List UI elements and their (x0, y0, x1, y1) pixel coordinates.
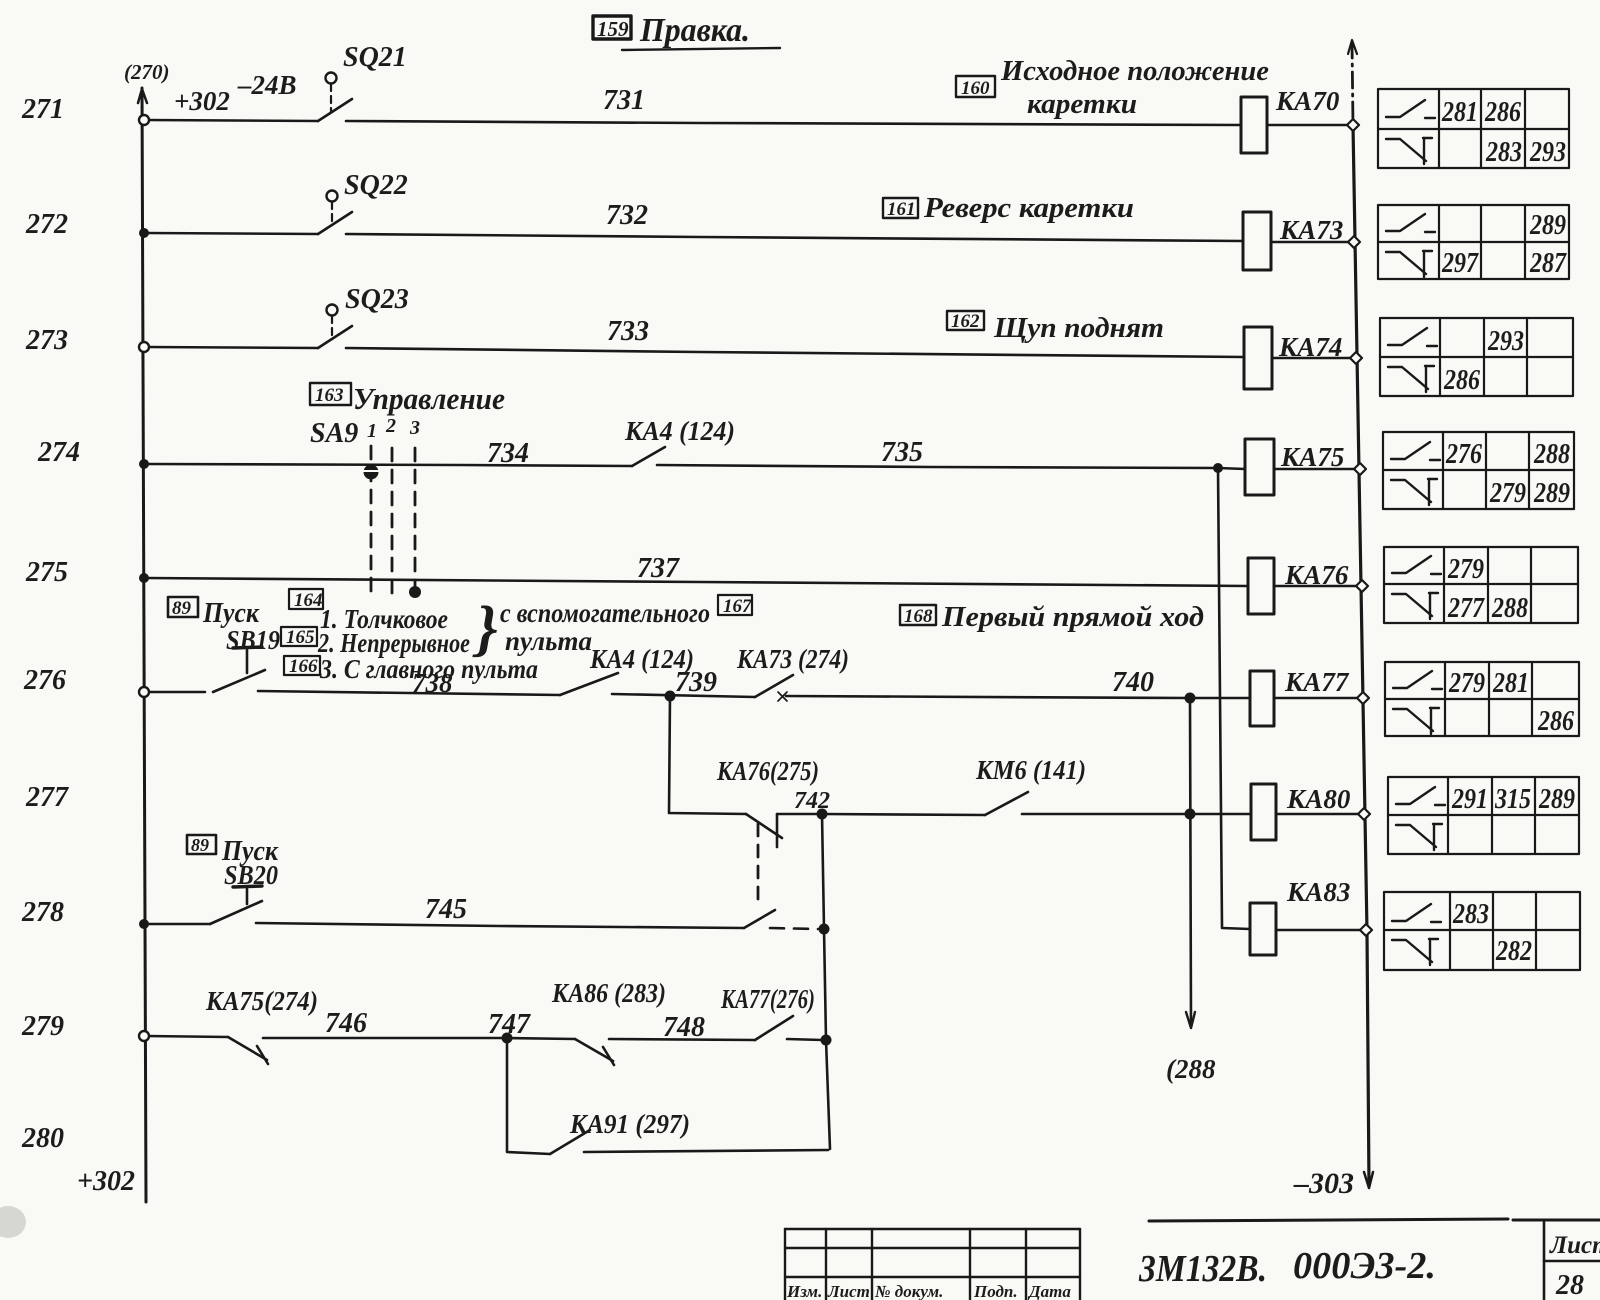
junction left bus rung 278 (139, 919, 149, 929)
relay coil KA75 (1245, 439, 1274, 495)
selector switch SA9 (371, 446, 415, 596)
label 163 Upravlenie (310, 383, 351, 405)
svg-text:+302: +302 (174, 86, 230, 116)
svg-text:165: 165 (286, 627, 315, 648)
svg-text:28: 28 (1555, 1270, 1584, 1300)
svg-text:271: 271 (21, 94, 64, 125)
svg-text:281: 281 (1441, 96, 1478, 128)
svg-text:Изм.: Изм. (786, 1282, 822, 1300)
svg-text:289: 289 (1533, 477, 1570, 509)
wire branch 739 to rung 277 (669, 696, 746, 814)
svg-text:КА76: КА76 (1284, 560, 1349, 590)
svg-text:КА80: КА80 (1286, 784, 1351, 814)
svg-text:SQ21: SQ21 (343, 42, 407, 73)
contact table KA75 (1383, 432, 1574, 509)
title block revision table (785, 1229, 1080, 1300)
svg-text:286: 286 (1537, 705, 1574, 737)
svg-text:293: 293 (1529, 136, 1566, 168)
svg-text:273: 273 (25, 325, 68, 356)
svg-text:SQ22: SQ22 (344, 170, 408, 201)
junction 747 (502, 1033, 513, 1044)
svg-text:89: 89 (172, 598, 192, 619)
junction rung 276 / branch 742 (665, 691, 676, 702)
svg-text:745: 745 (425, 894, 467, 925)
svg-text:288: 288 (1491, 592, 1528, 624)
push button SB19 (213, 647, 265, 692)
contact KA4 (124) rung 274 (632, 447, 665, 466)
junction rung 274 / branch to KA83 (1213, 463, 1223, 473)
limit switch SQ21 (318, 73, 352, 122)
contact KA77 (276) rung 279 (755, 1016, 793, 1040)
svg-text:89: 89 (191, 835, 209, 855)
contact KA4 (124) rung 276 (560, 673, 618, 695)
contact table KA74 (1380, 318, 1573, 396)
svg-text:160: 160 (961, 78, 990, 99)
svg-text:159: 159 (597, 17, 629, 41)
wire rung 276 (146, 691, 1363, 698)
svg-text:КА91 (297): КА91 (297) (569, 1109, 690, 1139)
svg-text:731: 731 (603, 85, 645, 116)
svg-text:291: 291 (1451, 783, 1488, 815)
svg-text:746: 746 (325, 1008, 367, 1039)
svg-text:747: 747 (488, 1009, 531, 1040)
svg-text:3: 3 (409, 417, 420, 439)
svg-text:276: 276 (1445, 438, 1482, 470)
junction right bus KA83 (1360, 924, 1372, 936)
svg-text:КА74: КА74 (1278, 332, 1342, 362)
svg-text:289: 289 (1529, 209, 1566, 241)
junction right bus rung 276 (1357, 692, 1369, 704)
svg-text:КА77(276): КА77(276) (720, 984, 815, 1014)
svg-text:166: 166 (289, 656, 318, 677)
svg-text:163: 163 (315, 385, 344, 406)
wire branch rung 274 to KA83 (1218, 468, 1250, 929)
wire rung 272 (146, 233, 1354, 242)
svg-text:740: 740 (1112, 667, 1154, 698)
svg-text:287: 287 (1529, 247, 1567, 279)
svg-text:КА77: КА77 (1284, 667, 1350, 697)
contact table KA73 (1378, 205, 1569, 279)
svg-text:с вспомогательного: с вспомогательного (500, 598, 710, 628)
wire rung 280 (507, 1038, 828, 1154)
junction right bus rung 277 (1358, 808, 1370, 820)
right bus -303 main (1353, 125, 1373, 1188)
svg-text:(288: (288 (1166, 1054, 1216, 1084)
svg-text:748: 748 (663, 1012, 705, 1043)
wire rung 277 (777, 814, 1364, 815)
svg-text:279: 279 (21, 1011, 64, 1042)
svg-text:732: 732 (606, 200, 648, 231)
sheet box List 28 (1544, 1222, 1600, 1300)
relay coil KA80 (1251, 784, 1276, 840)
svg-text:272: 272 (25, 209, 68, 240)
label 166 list item 3 (284, 656, 320, 675)
title block top line (1149, 1219, 1600, 1221)
svg-text:каретки: каретки (1027, 88, 1137, 120)
svg-text:162: 162 (951, 311, 980, 332)
svg-text:735: 735 (881, 437, 923, 468)
svg-text:Правка.: Правка. (639, 12, 750, 49)
relay coil KA74 (1244, 327, 1272, 389)
svg-text:275: 275 (25, 557, 68, 588)
junction right bus rung 271 (1347, 119, 1359, 131)
svg-text:SB20: SB20 (224, 860, 278, 890)
svg-text:КА73 (274): КА73 (274) (736, 644, 849, 674)
svg-text:КА75: КА75 (1280, 442, 1344, 472)
svg-text:734: 734 (487, 438, 529, 469)
svg-text:283: 283 (1485, 136, 1522, 168)
svg-text:277: 277 (1447, 592, 1485, 624)
svg-text:274: 274 (37, 437, 80, 468)
label 168 Pervyj pryamoj khod (900, 605, 936, 625)
svg-text:SQ23: SQ23 (345, 284, 409, 315)
label 162 Shchup podnyat (947, 311, 984, 330)
svg-text:280: 280 (21, 1123, 64, 1154)
svg-text:315: 315 (1494, 783, 1531, 815)
svg-text:164: 164 (294, 590, 323, 611)
junction rung 276 / branch 288 (1185, 693, 1196, 704)
svg-text:КА76(275): КА76(275) (716, 756, 819, 786)
wire rung 278 (146, 923, 818, 929)
limit switch SQ22 (318, 191, 352, 235)
contact KA91 (297) rung 280 (550, 1130, 590, 1154)
label 159 Pravka title (593, 16, 631, 39)
svg-text:1: 1 (367, 420, 377, 442)
svg-text:–24В: –24В (237, 70, 297, 100)
svg-text:КА75(274): КА75(274) (205, 986, 318, 1016)
relay coil KA77 (1250, 671, 1274, 726)
svg-text:167: 167 (723, 596, 753, 617)
relay coil KA73 (1243, 212, 1271, 270)
wire rung 279 (146, 1036, 822, 1040)
svg-text:279: 279 (1489, 477, 1526, 509)
contact KA76 rung 278 blade (744, 910, 775, 928)
contact KA76 (275) rung 277 (746, 814, 782, 905)
svg-text:733: 733 (607, 316, 649, 347)
contact table KA77 (1385, 662, 1579, 736)
label 164 list item 1 (289, 589, 323, 609)
junction left bus rung 276 (139, 687, 149, 697)
contact table KA83 (1384, 892, 1580, 970)
svg-text:3. С главного пульта: 3. С главного пульта (319, 654, 538, 684)
svg-text:283: 283 (1452, 898, 1489, 930)
svg-text:Дата: Дата (1027, 1282, 1071, 1300)
wire rung 275 (146, 578, 1362, 586)
svg-text:КА70: КА70 (1275, 86, 1340, 116)
svg-text:Лист: Лист (1549, 1232, 1600, 1259)
contact KM6 (141) (985, 792, 1028, 815)
svg-text:3М132В.: 3М132В. (1138, 1248, 1267, 1290)
svg-text:737: 737 (637, 553, 680, 584)
svg-text:168: 168 (904, 606, 933, 627)
contact KA75 (274) rung 279 (228, 1037, 268, 1064)
junction 742 (817, 809, 828, 820)
svg-text:КА4 (124): КА4 (124) (624, 416, 735, 446)
contact KA73 (274) rung 276 (755, 675, 793, 697)
left bus +302 (138, 88, 147, 1202)
junction right bus rung 273 (1350, 352, 1362, 364)
junction cross mark rung 276 (778, 692, 787, 701)
contact KA86 (283) rung 279 (575, 1039, 614, 1065)
label 167 (718, 595, 752, 615)
svg-text:КА86 (283): КА86 (283) (551, 978, 666, 1008)
svg-text:289: 289 (1538, 783, 1575, 815)
junction left bus rung 272 (139, 228, 149, 238)
junction rung 277 / branch 288 (1185, 809, 1196, 820)
svg-text:+302: +302 (77, 1166, 135, 1197)
wire KA83 to right bus (1276, 929, 1366, 932)
wire branch 742 vertical (822, 814, 830, 1149)
svg-text:000Э3-2.: 000Э3-2. (1293, 1245, 1436, 1287)
svg-text:Первый прямой ход: Первый прямой ход (941, 601, 1204, 633)
junction left bus rung 275 (139, 573, 149, 583)
svg-text:Реверс каретки: Реверс каретки (923, 192, 1134, 224)
svg-text:278: 278 (21, 897, 64, 928)
svg-text:SB19: SB19 (226, 625, 280, 655)
svg-text:161: 161 (887, 199, 916, 220)
svg-text:Исходное положение: Исходное положение (1000, 55, 1269, 87)
svg-text:277: 277 (25, 782, 69, 813)
wire rung 271 (146, 120, 1353, 125)
svg-text:286: 286 (1443, 364, 1480, 396)
relay coil KA83 (1250, 903, 1276, 955)
junction right bus rung 272 (1348, 236, 1360, 248)
svg-text:Управление: Управление (353, 381, 505, 416)
label 165 list item 2 (281, 627, 317, 646)
junction left bus rung 274 (139, 459, 149, 469)
svg-text:SA9: SA9 (310, 418, 358, 449)
relay coil KA70 (1241, 97, 1267, 153)
wire rung 274 (146, 464, 1360, 469)
label 160 Iskhodnoe polozhenie karetki (956, 76, 995, 97)
svg-text:288: 288 (1533, 438, 1570, 470)
svg-text:КА73: КА73 (1279, 215, 1343, 245)
limit switch SQ23 (318, 305, 352, 349)
svg-text:–303: –303 (1293, 1167, 1354, 1200)
svg-text:Лист: Лист (827, 1282, 870, 1300)
paper smudge (0, 1206, 26, 1238)
svg-text:279: 279 (1448, 667, 1485, 699)
svg-text:739: 739 (675, 667, 717, 698)
svg-text:Подп.: Подп. (973, 1282, 1018, 1300)
svg-text:КМ6 (141): КМ6 (141) (975, 755, 1086, 785)
junction right bus rung 274 (1354, 463, 1366, 475)
junction left bus rung 273 (139, 342, 149, 352)
junction branch 742 rung 279 (821, 1035, 832, 1046)
svg-text:}: } (472, 595, 498, 663)
push button SB20 (210, 886, 262, 924)
svg-text:(270): (270) (124, 60, 170, 84)
contact table KA76 (1384, 547, 1578, 623)
contact table KA80 (1388, 777, 1579, 854)
svg-text:286: 286 (1484, 96, 1521, 128)
svg-text:пульта: пульта (505, 626, 592, 656)
relay coil KA76 (1248, 558, 1274, 614)
junction left bus rung 271 (139, 115, 149, 125)
wire branch 288 vertical (1186, 698, 1195, 1028)
svg-text:282: 282 (1495, 935, 1532, 967)
svg-text:Щуп поднят: Щуп поднят (993, 312, 1164, 344)
svg-text:293: 293 (1487, 325, 1524, 357)
junction left bus rung 279 (139, 1031, 149, 1041)
svg-text:№ докум.: № докум. (874, 1282, 943, 1300)
svg-text:КА83: КА83 (1286, 877, 1350, 907)
svg-text:281: 281 (1492, 667, 1529, 699)
svg-text:276: 276 (23, 665, 66, 696)
label 161 Revers karetki (883, 198, 918, 218)
svg-text:279: 279 (1447, 553, 1484, 585)
svg-text:297: 297 (1441, 247, 1479, 279)
junction branch 742 rung 278 (819, 924, 830, 935)
junction right bus rung 275 (1356, 580, 1368, 592)
wire rung 273 (146, 347, 1356, 358)
right bus -303 dash-dot top (1348, 40, 1357, 125)
svg-text:2: 2 (385, 415, 396, 437)
contact table KA70 (1378, 89, 1569, 168)
